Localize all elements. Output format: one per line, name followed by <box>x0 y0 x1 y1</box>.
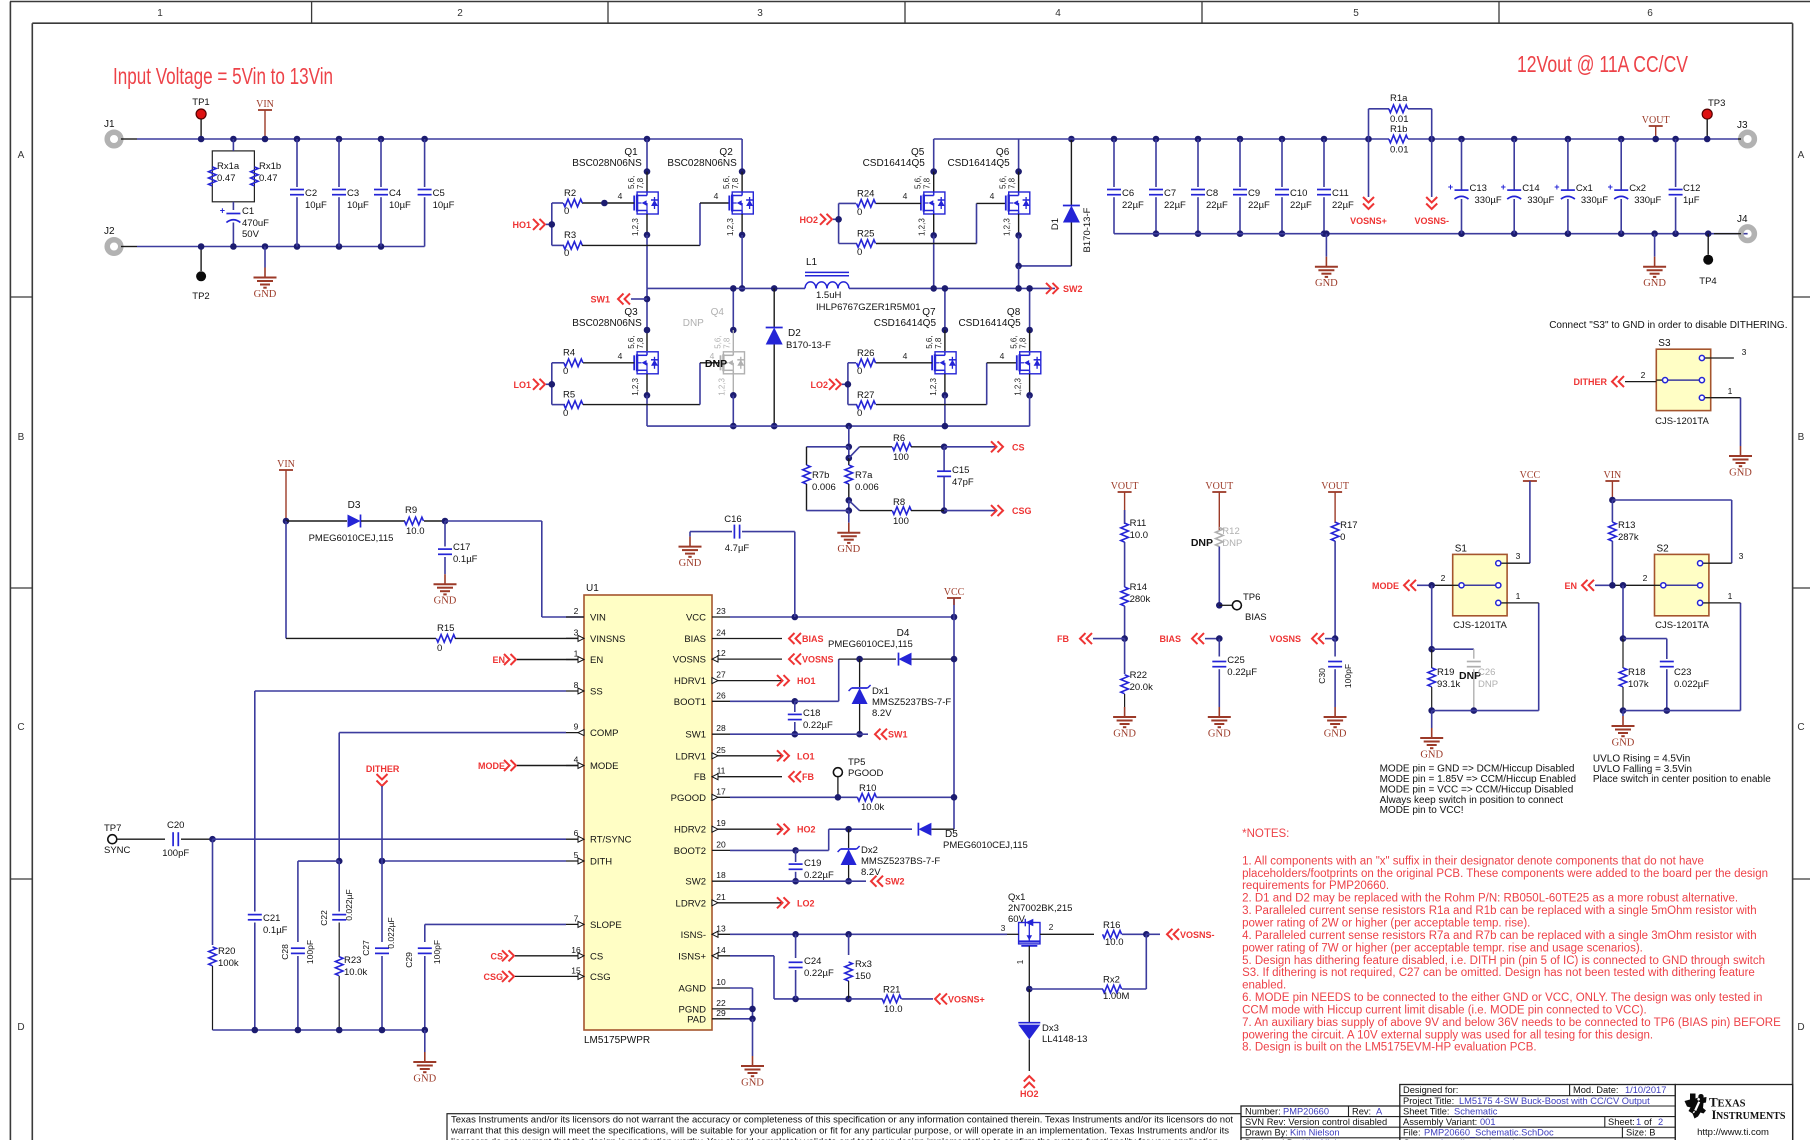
svg-text:B170-13-F: B170-13-F <box>786 340 831 351</box>
svg-text:Rx1b: Rx1b <box>259 161 281 172</box>
svg-text:R22: R22 <box>1130 670 1147 681</box>
svg-text:TP1: TP1 <box>192 97 209 108</box>
svg-text:5,6,: 5,6, <box>999 176 1008 189</box>
svg-text:0.01: 0.01 <box>1390 145 1409 156</box>
svg-text:10µF: 10µF <box>433 200 455 211</box>
svg-text:5,6,: 5,6, <box>925 335 934 348</box>
svg-text:Rx2: Rx2 <box>1103 975 1120 986</box>
svg-text:CJS-1201TA: CJS-1201TA <box>1453 620 1507 631</box>
svg-text:CSG: CSG <box>1012 506 1032 516</box>
svg-text:VOUT: VOUT <box>1205 481 1233 492</box>
svg-text:R19: R19 <box>1437 667 1454 678</box>
svg-text:1,2,3: 1,2,3 <box>1003 218 1012 236</box>
svg-text:19: 19 <box>716 818 726 828</box>
svg-text:C5: C5 <box>433 188 445 199</box>
svg-text:UVLO Rising = 4.5Vin: UVLO Rising = 4.5Vin <box>1593 753 1690 764</box>
svg-text:29: 29 <box>716 1008 726 1018</box>
svg-text:A: A <box>1798 150 1805 161</box>
svg-text:GND: GND <box>1729 468 1752 479</box>
svg-text:4: 4 <box>618 191 623 201</box>
svg-text:R13: R13 <box>1618 520 1635 531</box>
svg-text:MODE: MODE <box>590 761 619 772</box>
svg-text:EN: EN <box>492 655 505 665</box>
svg-text:R12: R12 <box>1222 526 1239 537</box>
svg-text:MODE: MODE <box>1372 581 1399 591</box>
svg-text:Cx1: Cx1 <box>1576 183 1593 194</box>
svg-text:File:: File: <box>1403 1128 1421 1138</box>
svg-text:PMP20660_Schematic.SchDoc: PMP20660_Schematic.SchDoc <box>1424 1128 1554 1138</box>
svg-text:3: 3 <box>757 8 763 19</box>
svg-text:10.0: 10.0 <box>406 526 425 537</box>
svg-text:GND: GND <box>1208 729 1231 740</box>
svg-text:LO1: LO1 <box>797 751 815 761</box>
svg-text:power rating of 7W or higher (: power rating of 7W or higher (per accept… <box>1242 942 1643 954</box>
svg-text:27: 27 <box>716 670 726 680</box>
svg-text:+: + <box>1501 182 1506 192</box>
svg-text:1,2,3: 1,2,3 <box>918 218 927 236</box>
svg-text:287k: 287k <box>1618 532 1639 543</box>
svg-text:Designed for:: Designed for: <box>1403 1085 1458 1095</box>
svg-text:VOSNS+: VOSNS+ <box>1350 216 1387 226</box>
svg-text:0: 0 <box>857 408 862 419</box>
svg-text:10µF: 10µF <box>305 200 327 211</box>
svg-text:licensors do not warrant that: licensors do not warrant that the design… <box>451 1137 1221 1140</box>
svg-text:0.22µF: 0.22µF <box>803 720 833 731</box>
svg-text:10.0k: 10.0k <box>344 967 367 978</box>
svg-text:22µF: 22µF <box>1248 200 1270 211</box>
svg-text:+: + <box>220 206 225 216</box>
svg-text:1: 1 <box>1015 959 1025 964</box>
svg-text:CS: CS <box>490 951 503 961</box>
svg-text:107k: 107k <box>1628 679 1649 690</box>
svg-text:SW2: SW2 <box>1063 284 1083 294</box>
svg-text:Dx3: Dx3 <box>1042 1023 1059 1034</box>
svg-text:TP5: TP5 <box>848 757 865 768</box>
svg-text:LDRV1: LDRV1 <box>676 751 706 762</box>
svg-text:2N7002BK,215: 2N7002BK,215 <box>1008 903 1072 914</box>
svg-text:6. MODE pin NEEDS to be conne: 6. MODE pin NEEDS to be connected to the… <box>1242 992 1762 1004</box>
svg-text:Rx1a: Rx1a <box>217 161 240 172</box>
svg-text:SVN Rev: Version control dis: SVN Rev: Version control disabled <box>1245 1117 1387 1127</box>
svg-text:Size: B: Size: B <box>1626 1128 1655 1138</box>
svg-text:1,2,3: 1,2,3 <box>726 218 735 236</box>
svg-text:GND: GND <box>254 289 277 300</box>
svg-text:U1: U1 <box>586 583 599 594</box>
svg-text:powering the circuit. A 10V e: powering the circuit. A 10V external sup… <box>1242 1029 1653 1041</box>
svg-text:100pF: 100pF <box>162 848 189 859</box>
svg-text:Q3: Q3 <box>624 307 638 318</box>
svg-text:1: 1 <box>1636 1117 1641 1127</box>
svg-text:HO1: HO1 <box>512 220 531 230</box>
svg-text:IHLP6767GZER1R5M01: IHLP6767GZER1R5M01 <box>816 302 921 313</box>
svg-text:Assembly Variant:: Assembly Variant: <box>1403 1117 1477 1127</box>
svg-text:BSC028N06NS: BSC028N06NS <box>667 158 737 169</box>
svg-text:Sheet:: Sheet: <box>1608 1117 1635 1127</box>
svg-text:28: 28 <box>716 723 726 733</box>
svg-text:GND: GND <box>1420 750 1443 761</box>
svg-text:VCC: VCC <box>944 587 965 598</box>
svg-text:7,8: 7,8 <box>731 177 740 189</box>
svg-text:C3: C3 <box>347 188 359 199</box>
svg-text:J2: J2 <box>104 226 115 237</box>
svg-text:RT/SYNC: RT/SYNC <box>590 835 632 846</box>
svg-text:VOSNS+: VOSNS+ <box>948 994 985 1004</box>
svg-text:C11: C11 <box>1332 188 1349 199</box>
svg-text:330µF: 330µF <box>1527 195 1554 206</box>
svg-text:Connect "S3" to GND in order t: Connect "S3" to GND in order to disable … <box>1549 320 1787 331</box>
svg-text:CSG: CSG <box>590 972 611 983</box>
svg-text:Q4: Q4 <box>711 307 725 318</box>
svg-text:C10: C10 <box>1290 188 1307 199</box>
svg-text:C21: C21 <box>263 913 280 924</box>
svg-text:280k: 280k <box>1130 594 1151 605</box>
svg-text:J1: J1 <box>104 119 115 130</box>
svg-text:Q5: Q5 <box>911 147 925 158</box>
svg-text:http://www.ti.com: http://www.ti.com <box>1697 1127 1769 1138</box>
svg-text:10.0: 10.0 <box>1130 530 1149 541</box>
svg-text:Number:: Number: <box>1245 1106 1281 1116</box>
svg-text:R7b: R7b <box>812 470 829 481</box>
svg-text:22µF: 22µF <box>1164 200 1186 211</box>
svg-text:SW1: SW1 <box>685 730 706 741</box>
svg-text:12Vout @ 11A CC/CV: 12Vout @ 11A CC/CV <box>1517 51 1689 77</box>
svg-text:TP2: TP2 <box>192 291 209 302</box>
svg-text:7,8: 7,8 <box>636 337 645 349</box>
svg-text:1: 1 <box>1728 591 1733 601</box>
svg-text:TP4: TP4 <box>1699 276 1716 287</box>
svg-text:A: A <box>1376 1106 1383 1116</box>
svg-text:R7a: R7a <box>855 470 873 481</box>
svg-text:2: 2 <box>1049 922 1054 932</box>
svg-text:93.1k: 93.1k <box>1437 679 1460 690</box>
svg-text:DNP: DNP <box>1478 679 1498 690</box>
svg-text:C17: C17 <box>453 542 470 553</box>
svg-text:Project Title:: Project Title: <box>1403 1096 1454 1106</box>
svg-text:VIN: VIN <box>1604 470 1622 481</box>
svg-text:HO2: HO2 <box>1020 1089 1039 1099</box>
svg-text:1.00M: 1.00M <box>1103 991 1129 1002</box>
svg-text:C24: C24 <box>804 956 821 967</box>
svg-text:B170-13-F: B170-13-F <box>1082 207 1093 252</box>
svg-text:L1: L1 <box>806 257 818 268</box>
svg-text:A: A <box>18 150 25 161</box>
svg-text:C14: C14 <box>1522 183 1539 194</box>
svg-text:4. Paralleled current sense r: 4. Paralleled current sense resistors R7… <box>1242 930 1757 942</box>
svg-text:EN: EN <box>590 655 603 666</box>
svg-text:MODE pin = 1.85V => CCM/Hiccup: MODE pin = 1.85V => CCM/Hiccup Enabled <box>1380 774 1576 785</box>
svg-text:0.47: 0.47 <box>217 173 236 184</box>
svg-text:+: + <box>1554 182 1559 192</box>
svg-text:10.0k: 10.0k <box>861 802 884 813</box>
svg-text:Q8: Q8 <box>1007 307 1021 318</box>
svg-text:23: 23 <box>716 606 726 616</box>
svg-text:VCC: VCC <box>1520 470 1541 481</box>
svg-text:2: 2 <box>1658 1117 1663 1127</box>
svg-text:S3: S3 <box>1658 338 1671 349</box>
svg-text:D5: D5 <box>945 829 958 840</box>
svg-text:C25: C25 <box>1227 655 1244 666</box>
svg-text:DNP: DNP <box>705 358 727 370</box>
svg-text:VOSNS: VOSNS <box>802 655 834 665</box>
svg-text:R3: R3 <box>564 230 576 241</box>
svg-text:22µF: 22µF <box>1122 200 1144 211</box>
svg-text:1,2,3: 1,2,3 <box>631 377 640 395</box>
svg-text:2: 2 <box>1441 573 1446 583</box>
svg-text:VOSNS-: VOSNS- <box>1180 930 1215 940</box>
svg-text:R5: R5 <box>563 390 575 401</box>
svg-text:CSD16414Q5: CSD16414Q5 <box>863 158 926 169</box>
svg-text:Q6: Q6 <box>996 147 1010 158</box>
svg-text:GND: GND <box>679 558 702 569</box>
svg-text:100k: 100k <box>218 958 239 969</box>
svg-text:R1b: R1b <box>1390 124 1407 135</box>
svg-text:GND: GND <box>1612 738 1635 749</box>
svg-text:Place switch in center positio: Place switch in center position to enabl… <box>1593 774 1771 785</box>
svg-text:MODE pin to VCC!: MODE pin to VCC! <box>1380 805 1464 816</box>
svg-text:R18: R18 <box>1628 667 1645 678</box>
svg-text:R11: R11 <box>1130 518 1147 529</box>
svg-text:CS: CS <box>590 951 603 962</box>
svg-text:4: 4 <box>618 351 623 361</box>
svg-text:22µF: 22µF <box>1290 200 1312 211</box>
svg-text:150: 150 <box>855 971 871 982</box>
svg-text:PMP20660: PMP20660 <box>1283 1106 1329 1116</box>
svg-text:CSD16414Q5: CSD16414Q5 <box>947 158 1010 169</box>
svg-text:DITH: DITH <box>590 857 612 868</box>
svg-text:S3. If dithering is not requi: S3. If dithering is not required, C27 ca… <box>1242 967 1755 979</box>
svg-text:5: 5 <box>1353 8 1359 19</box>
svg-text:10µF: 10µF <box>347 200 369 211</box>
svg-text:100pF: 100pF <box>432 940 442 964</box>
svg-text:S2: S2 <box>1657 543 1670 554</box>
svg-text:FB: FB <box>802 772 814 782</box>
svg-text:4: 4 <box>714 191 719 201</box>
svg-text:LL4148-13: LL4148-13 <box>1042 1034 1087 1045</box>
svg-text:BIAS: BIAS <box>802 634 824 644</box>
svg-text:Drawn By:: Drawn By: <box>1245 1128 1288 1138</box>
svg-text:3. Paralleled current sense r: 3. Paralleled current sense resistors R1… <box>1242 905 1757 917</box>
svg-text:Mod. Date:: Mod. Date: <box>1573 1085 1618 1095</box>
svg-text:8.2V: 8.2V <box>861 867 881 878</box>
svg-text:GND: GND <box>1315 278 1338 289</box>
svg-text:enabled.: enabled. <box>1242 980 1286 992</box>
svg-text:C29: C29 <box>404 952 414 968</box>
svg-text:C8: C8 <box>1206 188 1218 199</box>
svg-text:GND: GND <box>434 596 457 607</box>
svg-text:17: 17 <box>716 786 726 796</box>
svg-text:D2: D2 <box>788 328 801 339</box>
svg-text:C19: C19 <box>804 858 821 869</box>
svg-text:FB: FB <box>1057 634 1069 644</box>
svg-text:C13: C13 <box>1470 183 1487 194</box>
svg-text:Texas Instruments and/or its l: Texas Instruments and/or its licensors d… <box>451 1115 1234 1125</box>
svg-text:CSD16414Q5: CSD16414Q5 <box>874 318 937 329</box>
svg-text:Sheet Title:: Sheet Title: <box>1403 1106 1450 1116</box>
svg-text:5,6,: 5,6, <box>914 176 923 189</box>
svg-text:CCM mode with Hiccup current l: CCM mode with Hiccup current limit disab… <box>1242 1004 1647 1016</box>
svg-text:18: 18 <box>716 870 726 880</box>
svg-text:2. D1 and D2 may be replaced: 2. D1 and D2 may be replaced with the Ro… <box>1242 893 1738 905</box>
svg-text:47pF: 47pF <box>952 477 974 488</box>
svg-text:R14: R14 <box>1130 582 1147 593</box>
svg-text:C6: C6 <box>1122 188 1134 199</box>
svg-text:0: 0 <box>437 643 442 654</box>
svg-text:HDRV1: HDRV1 <box>674 676 706 687</box>
svg-text:ISNS+: ISNS+ <box>678 951 706 962</box>
svg-text:330µF: 330µF <box>1475 195 1502 206</box>
svg-text:0.006: 0.006 <box>855 482 879 493</box>
svg-text:VOUT: VOUT <box>1111 481 1139 492</box>
svg-text:R2: R2 <box>564 188 576 199</box>
svg-text:R21: R21 <box>883 985 900 996</box>
svg-text:DITHER: DITHER <box>366 764 400 774</box>
svg-text:1,2,3: 1,2,3 <box>1014 377 1023 395</box>
svg-text:4: 4 <box>903 351 908 361</box>
svg-text:Always keep switch in position: Always keep switch in position to connec… <box>1380 795 1564 806</box>
svg-text:AGND: AGND <box>679 984 707 995</box>
svg-text:1,2,3: 1,2,3 <box>929 377 938 395</box>
svg-text:D1: D1 <box>1050 218 1061 230</box>
svg-text:MODE pin = GND => DCM/Hiccup D: MODE pin = GND => DCM/Hiccup Disabled <box>1380 764 1575 775</box>
svg-text:C27: C27 <box>361 940 371 956</box>
svg-text:FB: FB <box>694 772 706 783</box>
svg-text:TP7: TP7 <box>104 823 121 834</box>
svg-text:R10: R10 <box>859 783 876 794</box>
svg-text:100: 100 <box>893 516 909 527</box>
svg-text:7,8: 7,8 <box>636 177 645 189</box>
svg-text:0.022µF: 0.022µF <box>386 917 396 948</box>
svg-text:SS: SS <box>590 687 603 698</box>
svg-text:Input Voltage = 5Vin to 13Vin: Input Voltage = 5Vin to 13Vin <box>113 63 333 89</box>
svg-text:SLOPE: SLOPE <box>590 920 622 931</box>
svg-text:D4: D4 <box>897 628 910 639</box>
svg-text:R16: R16 <box>1103 920 1120 931</box>
svg-text:2: 2 <box>1643 573 1648 583</box>
svg-text:C20: C20 <box>167 820 184 831</box>
svg-text:power rating of 2W or higher (: power rating of 2W or higher (per accept… <box>1242 918 1530 930</box>
svg-text:SW1: SW1 <box>888 730 908 740</box>
svg-text:C22: C22 <box>319 910 329 926</box>
svg-text:LM5175 4-SW Buck-Boost with CC: LM5175 4-SW Buck-Boost with CC/CV Output <box>1459 1096 1650 1106</box>
svg-text:HO1: HO1 <box>797 676 816 686</box>
svg-text:PMEG6010CEJ,115: PMEG6010CEJ,115 <box>309 533 394 544</box>
svg-text:C1: C1 <box>242 206 254 217</box>
svg-text:5. Design has dithering featu: 5. Design has dithering feature disabled… <box>1242 955 1765 967</box>
svg-text:placeholders/footprints on the: placeholders/footprints on the original … <box>1242 868 1768 880</box>
svg-text:CSD16414Q5: CSD16414Q5 <box>958 318 1021 329</box>
svg-text:R8: R8 <box>893 497 905 508</box>
svg-text:Rev:: Rev: <box>1352 1106 1371 1116</box>
svg-text:0.1µF: 0.1µF <box>453 554 478 565</box>
svg-text:001: 001 <box>1480 1117 1496 1127</box>
svg-text:R17: R17 <box>1340 520 1357 531</box>
svg-text:7. An auxiliary bias supply o: 7. An auxiliary bias supply of above 9V … <box>1242 1017 1781 1029</box>
svg-text:100: 100 <box>893 452 909 463</box>
svg-text:1/10/2017: 1/10/2017 <box>1625 1085 1666 1095</box>
svg-text:S1: S1 <box>1455 543 1468 554</box>
svg-text:BOOT1: BOOT1 <box>674 697 706 708</box>
svg-text:PGOOD: PGOOD <box>671 793 707 804</box>
svg-text:R20: R20 <box>218 946 235 957</box>
svg-text:1: 1 <box>157 8 163 19</box>
svg-text:Kim Nielson: Kim Nielson <box>1290 1128 1340 1138</box>
svg-text:5,6,: 5,6, <box>713 335 722 348</box>
svg-text:C: C <box>1797 722 1804 733</box>
svg-text:+: + <box>1448 182 1453 192</box>
svg-text:R9: R9 <box>405 505 417 516</box>
svg-text:Cx2: Cx2 <box>1629 183 1646 194</box>
svg-text:0: 0 <box>564 206 569 217</box>
svg-text:NSTRUMENTS: NSTRUMENTS <box>1716 1111 1786 1122</box>
svg-text:EXAS: EXAS <box>1718 1099 1746 1110</box>
svg-text:PGOOD: PGOOD <box>848 768 884 779</box>
svg-text:20: 20 <box>716 839 726 849</box>
svg-text:0: 0 <box>857 247 862 258</box>
svg-text:LO2: LO2 <box>810 380 828 390</box>
svg-text:BSC028N06NS: BSC028N06NS <box>572 158 642 169</box>
svg-text:3: 3 <box>1516 551 1521 561</box>
svg-text:VIN: VIN <box>256 99 274 110</box>
svg-text:7,8: 7,8 <box>1019 337 1028 349</box>
svg-text:10: 10 <box>716 977 726 987</box>
svg-text:MMSZ5237BS-7-F: MMSZ5237BS-7-F <box>872 697 951 708</box>
svg-text:0: 0 <box>857 366 862 377</box>
svg-text:SW2: SW2 <box>685 877 706 888</box>
svg-text:0.22µF: 0.22µF <box>804 968 834 979</box>
svg-text:VINSNS: VINSNS <box>590 634 625 645</box>
svg-text:VOUT: VOUT <box>1321 481 1349 492</box>
svg-text:0.22µF: 0.22µF <box>1227 667 1257 678</box>
svg-text:D3: D3 <box>348 500 361 511</box>
svg-text:R15: R15 <box>437 623 454 634</box>
svg-text:B: B <box>1798 432 1805 443</box>
svg-text:22: 22 <box>716 998 726 1008</box>
svg-text:21: 21 <box>716 892 726 902</box>
svg-text:DNP: DNP <box>1191 537 1213 549</box>
svg-text:SW2: SW2 <box>885 877 905 887</box>
svg-text:1. All components with an "x": 1. All components with an "x" suffix in … <box>1242 855 1704 867</box>
svg-text:GND: GND <box>413 1074 436 1085</box>
svg-text:4: 4 <box>1055 8 1061 19</box>
svg-text:100pF: 100pF <box>305 940 315 964</box>
svg-text:6: 6 <box>1647 8 1653 19</box>
svg-text:330µF: 330µF <box>1634 195 1661 206</box>
svg-text:0.47: 0.47 <box>259 173 278 184</box>
svg-text:5,6,: 5,6, <box>627 335 636 348</box>
svg-text:BIAS: BIAS <box>1245 612 1267 623</box>
svg-text:0: 0 <box>564 248 569 259</box>
svg-text:TP3: TP3 <box>1708 98 1725 109</box>
svg-text:7,8: 7,8 <box>1008 177 1017 189</box>
svg-text:VOSNS: VOSNS <box>1269 634 1301 644</box>
svg-text:GND: GND <box>1324 729 1347 740</box>
svg-text:HO2: HO2 <box>799 215 818 225</box>
svg-text:R24: R24 <box>857 189 874 200</box>
svg-text:*NOTES:: *NOTES: <box>1242 828 1289 840</box>
svg-text:R6: R6 <box>893 433 905 444</box>
svg-text:8. Design is built on the LM5: 8. Design is built on the LM5175EVM-HP e… <box>1242 1042 1536 1054</box>
svg-text:1.5uH: 1.5uH <box>816 290 841 301</box>
svg-text:7,8: 7,8 <box>934 337 943 349</box>
svg-text:Rx3: Rx3 <box>855 959 872 970</box>
svg-text:SYNC: SYNC <box>104 845 131 856</box>
svg-text:1,2,3: 1,2,3 <box>717 377 726 395</box>
svg-text:C9: C9 <box>1248 188 1260 199</box>
svg-text:CJS-1201TA: CJS-1201TA <box>1655 416 1709 427</box>
svg-text:C23: C23 <box>1674 667 1691 678</box>
svg-text:5,6,: 5,6, <box>1010 335 1019 348</box>
svg-text:PMEG6010CEJ,115: PMEG6010CEJ,115 <box>943 840 1028 851</box>
